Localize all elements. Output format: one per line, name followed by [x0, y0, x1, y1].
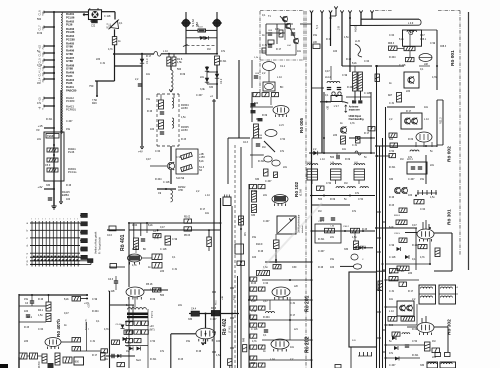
- svg-text:GY88: GY88: [66, 67, 73, 71]
- svg-text:22n: 22n: [330, 236, 335, 239]
- svg-text:BC: BC: [280, 86, 284, 89]
- svg-text:V3: V3: [36, 128, 40, 132]
- svg-text:HC50: HC50: [181, 106, 188, 110]
- svg-text:C 99: C 99: [342, 74, 348, 77]
- svg-text:10n: 10n: [146, 73, 151, 76]
- svg-text:R 46: R 46: [389, 196, 395, 199]
- svg-text:L1.5: L1.5: [279, 124, 284, 127]
- svg-text:PCL86: PCL86: [66, 30, 75, 34]
- svg-text:R 09: R 09: [412, 328, 418, 331]
- svg-text:8,2k: 8,2k: [64, 298, 69, 301]
- svg-text:0,47: 0,47: [263, 300, 268, 303]
- svg-text:4,7k: 4,7k: [432, 76, 437, 79]
- svg-text:Rö 301: Rö 301: [447, 209, 453, 225]
- svg-text:1M: 1M: [207, 48, 210, 51]
- svg-text:330: 330: [420, 364, 425, 367]
- svg-text:C 52: C 52: [326, 182, 332, 185]
- svg-text:+4V: +4V: [37, 185, 42, 189]
- svg-text:S1.3: S1.3: [234, 295, 236, 300]
- svg-text:10n: 10n: [290, 346, 295, 349]
- svg-text:C 31: C 31: [90, 340, 96, 343]
- svg-text:PCC88: PCC88: [66, 37, 75, 41]
- svg-text:PCC1s: PCC1s: [68, 170, 77, 174]
- svg-text:8,2k: 8,2k: [199, 160, 204, 163]
- svg-text:R 09: R 09: [150, 298, 156, 301]
- svg-text:Rö 102: Rö 102: [294, 181, 299, 197]
- svg-text:PCF801: PCF801: [66, 108, 76, 112]
- svg-text:71C: 71C: [43, 26, 45, 30]
- svg-text:1M: 1M: [318, 210, 321, 213]
- svg-text:C 99: C 99: [251, 310, 257, 313]
- svg-text:560: 560: [389, 138, 394, 141]
- svg-text:GY86: GY86: [66, 59, 73, 63]
- svg-text:R 23: R 23: [362, 228, 368, 231]
- svg-text:22n: 22n: [283, 166, 288, 169]
- svg-text:C 64: C 64: [364, 60, 370, 63]
- svg-text:330: 330: [344, 248, 349, 251]
- svg-text:R 204: R 204: [155, 178, 162, 181]
- svg-text:R 46: R 46: [147, 110, 153, 113]
- svg-text:C 52: C 52: [37, 64, 43, 67]
- svg-text:C309: C309: [399, 271, 405, 273]
- svg-text:100: 100: [150, 128, 155, 131]
- svg-text:330: 330: [389, 178, 394, 181]
- svg-text:C2.2: C2.2: [220, 78, 223, 84]
- svg-text:C 99: C 99: [176, 156, 182, 159]
- svg-text:R5.2: R5.2: [127, 346, 132, 348]
- svg-text:81C: 81C: [43, 11, 45, 15]
- svg-text:C 64: C 64: [420, 208, 426, 211]
- svg-text:C 31: C 31: [262, 44, 268, 47]
- svg-text:C 118: C 118: [389, 256, 396, 259]
- svg-text:C4.3: C4.3: [108, 278, 114, 281]
- svg-text:(7 W): (7 W): [228, 326, 232, 333]
- svg-text:R 23: R 23: [389, 204, 395, 207]
- svg-text:C 207: C 207: [210, 318, 217, 321]
- svg-text:PL86: PL86: [66, 81, 73, 85]
- svg-text:61C: 61C: [43, 52, 45, 56]
- svg-text:1M: 1M: [400, 158, 403, 161]
- svg-text:R11.3: R11.3: [440, 117, 443, 124]
- svg-text:C 52: C 52: [389, 150, 395, 153]
- svg-text:L 14: L 14: [270, 358, 275, 361]
- svg-text:41C: 41C: [43, 72, 45, 76]
- svg-text:Rö 202: Rö 202: [305, 336, 311, 353]
- svg-text:R 17: R 17: [406, 110, 412, 113]
- svg-text:+2B: +2B: [328, 105, 330, 110]
- svg-text:750: 750: [89, 84, 94, 88]
- svg-text:Rö 401: Rö 401: [120, 234, 126, 251]
- svg-text:Rö 001: Rö 001: [450, 50, 456, 66]
- svg-text:J.B: J.B: [337, 26, 341, 30]
- svg-text:C 31: C 31: [352, 144, 358, 147]
- svg-text:C 52: C 52: [412, 340, 418, 343]
- svg-text:10n: 10n: [424, 106, 429, 109]
- svg-text:8,2k: 8,2k: [399, 38, 404, 41]
- svg-text:C 207: C 207: [408, 178, 415, 181]
- svg-text:L 0.9: L 0.9: [408, 22, 414, 25]
- svg-text:R 46: R 46: [38, 298, 44, 301]
- svg-text:C30: C30: [292, 266, 297, 269]
- svg-text:1,5n: 1,5n: [430, 196, 435, 199]
- svg-text:R 46: R 46: [66, 184, 72, 187]
- svg-text:C08.3: C08.3: [440, 46, 447, 48]
- svg-text:C 64: C 64: [263, 282, 269, 285]
- svg-text:Rö9: Rö9: [92, 102, 97, 105]
- svg-text:100: 100: [333, 50, 338, 53]
- svg-text:C 99: C 99: [430, 42, 436, 45]
- svg-text:330: 330: [209, 86, 214, 89]
- svg-text:Rö7: Rö7: [388, 95, 393, 97]
- svg-text:Flachbandltg.: Flachbandltg.: [349, 118, 365, 121]
- svg-text:C 64: C 64: [389, 34, 395, 37]
- svg-text:1M: 1M: [432, 340, 435, 343]
- svg-text:C 207: C 207: [318, 250, 325, 253]
- svg-text:L15.1: L15.1: [407, 159, 413, 161]
- svg-text:R 09: R 09: [330, 198, 336, 201]
- svg-text:R 09: R 09: [345, 158, 351, 161]
- svg-text:22n: 22n: [263, 194, 268, 197]
- svg-text:C2.3: C2.3: [243, 142, 249, 144]
- svg-text:5,3: 5,3: [315, 25, 319, 29]
- svg-text:R5.18: R5.18: [146, 283, 153, 286]
- svg-text:560: 560: [318, 198, 323, 201]
- svg-text:100: 100: [66, 198, 71, 201]
- svg-text:R 17: R 17: [276, 48, 282, 51]
- svg-text:R48: R48: [244, 337, 246, 342]
- svg-text:C1.7: C1.7: [39, 25, 42, 31]
- svg-text:220: 220: [408, 272, 413, 275]
- svg-text:L 14: L 14: [205, 194, 210, 197]
- svg-text:1,5n: 1,5n: [216, 354, 221, 357]
- svg-text:560: 560: [37, 18, 42, 21]
- svg-text:R 09: R 09: [180, 73, 186, 76]
- svg-text:C 118: C 118: [160, 248, 167, 251]
- svg-text:L 14: L 14: [320, 158, 325, 161]
- svg-text:4,7k: 4,7k: [420, 256, 425, 259]
- svg-text:22n: 22n: [37, 138, 42, 141]
- svg-text:R 23: R 23: [178, 358, 184, 361]
- svg-text:R 311: R 311: [150, 358, 157, 361]
- svg-text:C 207: C 207: [263, 220, 270, 223]
- svg-text:C4.4: C4.4: [191, 308, 197, 311]
- svg-text:C 207: C 207: [389, 364, 396, 367]
- svg-text:+U2: +U2: [39, 44, 42, 49]
- svg-text:L 14: L 14: [150, 288, 155, 291]
- svg-text:R06.3: R06.3: [388, 43, 395, 45]
- svg-text:4,7k: 4,7k: [350, 122, 355, 125]
- svg-text:8,2k: 8,2k: [251, 300, 256, 303]
- svg-text:WK: WK: [244, 232, 247, 236]
- svg-text:L14.2: L14.2: [325, 77, 331, 79]
- svg-text:PL500: PL500: [39, 361, 41, 368]
- svg-text:TST S: TST S: [151, 311, 154, 318]
- svg-text:C 99: C 99: [92, 298, 98, 301]
- svg-text:100: 100: [408, 194, 413, 197]
- svg-text:L1.B: L1.B: [355, 41, 360, 43]
- svg-text:R 17: R 17: [290, 314, 296, 317]
- svg-text:22n: 22n: [200, 76, 205, 79]
- svg-text:8,2k: 8,2k: [148, 224, 153, 227]
- svg-text:PL84: PL84: [66, 74, 73, 78]
- svg-text:C 52: C 52: [358, 198, 364, 201]
- svg-text:22n: 22n: [432, 356, 437, 359]
- svg-text:R 23: R 23: [181, 138, 187, 141]
- svg-text:0,47: 0,47: [64, 312, 69, 315]
- svg-text:10n: 10n: [297, 50, 302, 53]
- svg-text:R 17: R 17: [408, 290, 414, 293]
- svg-text:Fl.-Tast.gelöscht: Fl.-Tast.gelöscht: [99, 237, 102, 254]
- svg-text:R5.02: R5.02: [184, 217, 191, 219]
- svg-text:anpassen: anpassen: [349, 109, 361, 112]
- svg-text:L 14: L 14: [389, 310, 394, 313]
- svg-text:4,7k: 4,7k: [132, 264, 137, 267]
- svg-text:220: 220: [406, 90, 411, 93]
- svg-text:GY86: GY86: [66, 45, 73, 49]
- svg-text:+4B: +4B: [222, 296, 224, 300]
- svg-text:220: 220: [160, 270, 165, 273]
- svg-text:22n: 22n: [430, 164, 435, 167]
- svg-text:C22: C22: [91, 26, 96, 28]
- svg-text:C 118: C 118: [399, 64, 406, 67]
- svg-text:R 311: R 311: [318, 238, 325, 241]
- svg-text:Netzgleichr.: Netzgleichr.: [85, 318, 88, 330]
- svg-text:C 64: C 64: [155, 150, 161, 153]
- svg-text:0,47: 0,47: [325, 70, 330, 73]
- svg-text:Rö 005: Rö 005: [299, 117, 304, 133]
- svg-text:R 17: R 17: [364, 132, 370, 135]
- svg-text:4,7k: 4,7k: [104, 328, 109, 331]
- svg-text:100: 100: [216, 340, 221, 343]
- svg-text:C 64: C 64: [38, 328, 44, 331]
- svg-text:C 31: C 31: [389, 290, 395, 293]
- svg-text:1M: 1M: [37, 82, 40, 85]
- svg-text:C1.4: C1.4: [39, 71, 42, 77]
- svg-text:C 31: C 31: [172, 268, 178, 271]
- svg-text:8,2k: 8,2k: [389, 226, 394, 229]
- svg-text:GY86: GY86: [66, 52, 73, 56]
- svg-text:C5.1: C5.1: [127, 343, 132, 345]
- svg-text:Si 0,8A: Si 0,8A: [192, 19, 195, 27]
- svg-text:(0,7W): (0,7W): [300, 189, 303, 196]
- svg-text:100: 100: [252, 256, 257, 259]
- svg-text:R 46: R 46: [326, 38, 332, 41]
- svg-text:C1.3: C1.3: [145, 58, 149, 64]
- svg-text:C 31: C 31: [290, 302, 296, 305]
- svg-text:C 118: C 118: [251, 328, 258, 331]
- svg-text:600: 600: [75, 361, 80, 364]
- svg-text:4,7k: 4,7k: [252, 340, 257, 343]
- svg-text:R 311: R 311: [220, 60, 227, 63]
- svg-text:C5.9: C5.9: [45, 164, 51, 167]
- svg-text:R4.1: R4.1: [38, 309, 44, 312]
- svg-text:220: 220: [96, 58, 101, 61]
- svg-text:L 14: L 14: [163, 50, 168, 53]
- svg-text:C 207: C 207: [196, 94, 203, 97]
- svg-text:TEMP: TEMP: [47, 134, 54, 138]
- svg-text:C2.7: C2.7: [153, 231, 159, 233]
- svg-text:560: 560: [330, 156, 335, 159]
- svg-text:R 46: R 46: [196, 350, 202, 353]
- svg-text:PCL86: PCL86: [66, 15, 75, 19]
- svg-text:R20.8: R20.8: [394, 215, 401, 217]
- svg-text:C 118: C 118: [163, 181, 170, 184]
- svg-text:R 204: R 204: [263, 316, 270, 319]
- svg-text:R 311: R 311: [258, 160, 265, 163]
- svg-text:UHF: UHF: [178, 189, 184, 192]
- svg-text:C20.5: C20.5: [394, 233, 401, 235]
- svg-text:C 52: C 52: [150, 340, 156, 343]
- svg-text:C1.1: C1.1: [280, 65, 286, 68]
- svg-text:C30.2: C30.2: [343, 226, 350, 228]
- svg-text:Netz: Netz: [136, 359, 142, 362]
- svg-text:0,47: 0,47: [146, 158, 151, 161]
- svg-text:Rö 407b: Rö 407b: [56, 319, 61, 337]
- svg-text:10n: 10n: [205, 212, 210, 215]
- svg-text:R 09: R 09: [37, 32, 43, 35]
- svg-text:BC: BC: [143, 249, 147, 251]
- svg-text:8,2k: 8,2k: [352, 62, 357, 65]
- svg-text:C 207: C 207: [66, 120, 73, 123]
- svg-text:R30.5: R30.5: [360, 246, 367, 248]
- svg-text:R10.9: R10.9: [256, 243, 263, 246]
- svg-text:3,3k: 3,3k: [200, 88, 205, 91]
- svg-text:+4V: +4V: [138, 150, 143, 154]
- svg-text:330: 330: [188, 318, 193, 321]
- svg-text:S10 S9: S10 S9: [176, 177, 185, 180]
- svg-text:+15V: +15V: [199, 156, 205, 159]
- svg-text:1M: 1M: [126, 350, 129, 353]
- svg-text:1,5n: 1,5n: [181, 116, 186, 119]
- svg-text:C5.13: C5.13: [116, 324, 123, 326]
- svg-text:PABC80: PABC80: [66, 88, 77, 92]
- svg-text:1,5k: 1,5k: [177, 61, 182, 64]
- svg-text:A(W): A(W): [354, 26, 358, 32]
- svg-text:0,47: 0,47: [412, 224, 417, 227]
- svg-text:100: 100: [330, 266, 335, 269]
- svg-text:+15: +15: [39, 97, 42, 102]
- svg-text:220: 220: [333, 134, 338, 137]
- svg-text:R 311: R 311: [251, 190, 258, 193]
- svg-text:51C: 51C: [43, 59, 45, 63]
- svg-text:L 14: L 14: [424, 118, 429, 121]
- svg-text:R 23: R 23: [251, 282, 257, 285]
- svg-text:22n: 22n: [178, 304, 183, 307]
- svg-text:Rö 201: Rö 201: [305, 295, 311, 312]
- svg-text:R1.9: R1.9: [106, 23, 109, 29]
- svg-text:10n: 10n: [389, 298, 394, 301]
- svg-text:560: 560: [160, 294, 165, 297]
- svg-text:330: 330: [46, 184, 51, 187]
- svg-text:C 99: C 99: [172, 238, 178, 241]
- svg-text:C 118: C 118: [364, 92, 371, 95]
- svg-text:R 17: R 17: [146, 55, 152, 58]
- svg-text:R 204: R 204: [90, 20, 97, 23]
- svg-text:C1.5: C1.5: [39, 58, 42, 64]
- svg-text:0,47: 0,47: [160, 226, 165, 229]
- svg-text:R 46: R 46: [318, 266, 324, 269]
- svg-text:1,5n: 1,5n: [352, 236, 357, 239]
- svg-text:R 23: R 23: [346, 58, 352, 61]
- svg-text:C 207: C 207: [265, 180, 272, 183]
- svg-text:C 52: C 52: [280, 138, 286, 141]
- svg-text:C 52: C 52: [199, 36, 205, 39]
- svg-text:4,7k: 4,7k: [275, 28, 280, 31]
- svg-text:2U: 2U: [43, 46, 45, 49]
- svg-text:220: 220: [24, 340, 29, 343]
- svg-text:C 31: C 31: [389, 102, 395, 105]
- svg-text:220: 220: [251, 362, 256, 365]
- svg-text:R 204: R 204: [347, 86, 354, 89]
- svg-text:o o: o o: [352, 339, 356, 342]
- svg-text:C5.2: C5.2: [250, 313, 252, 318]
- svg-text:560: 560: [389, 324, 394, 327]
- svg-text:R 17: R 17: [92, 354, 98, 357]
- svg-text:R 204: R 204: [92, 310, 99, 313]
- svg-text:PCF80: PCF80: [66, 99, 75, 103]
- svg-text:L 9.7: L 9.7: [334, 106, 340, 108]
- svg-text:Rö 002: Rö 002: [447, 146, 453, 162]
- svg-text:C30.1: C30.1: [318, 221, 325, 223]
- svg-text:(MT): (MT): [150, 328, 155, 331]
- svg-text:R 17: R 17: [200, 208, 206, 211]
- svg-text:C 31: C 31: [100, 62, 106, 65]
- svg-text:1,5n: 1,5n: [38, 314, 43, 317]
- svg-text:R 09: R 09: [262, 114, 268, 117]
- svg-text:R 204: R 204: [132, 248, 139, 251]
- svg-text:R 09: R 09: [408, 138, 414, 141]
- svg-text:C 99: C 99: [389, 244, 395, 247]
- svg-text:100: 100: [24, 310, 29, 313]
- svg-text:+2,5: +2,5: [89, 303, 91, 308]
- svg-text:R 311: R 311: [389, 166, 396, 169]
- svg-text:PL36: PL36: [66, 23, 73, 27]
- svg-text:R 311: R 311: [46, 118, 53, 121]
- svg-text:R 46: R 46: [258, 250, 264, 253]
- svg-text:0,47: 0,47: [420, 34, 425, 37]
- svg-text:C 64: C 64: [132, 224, 138, 227]
- svg-text:HC50: HC50: [181, 128, 188, 132]
- svg-text:330: 330: [251, 214, 256, 217]
- svg-text:Vertikal u.Horiz.geteilt: Vertikal u.Horiz.geteilt: [95, 231, 98, 254]
- svg-text:C1.8: C1.8: [39, 10, 42, 16]
- svg-text:PL36: PL36: [68, 150, 75, 154]
- svg-text:EM84: EM84: [62, 193, 69, 197]
- svg-text:R 204: R 204: [389, 56, 396, 59]
- svg-text:10n: 10n: [342, 148, 347, 151]
- svg-text:R 23: R 23: [24, 326, 30, 329]
- svg-text:C 118: C 118: [104, 15, 111, 18]
- svg-text:R5.1: R5.1: [216, 300, 218, 305]
- svg-text:1M: 1M: [344, 182, 347, 185]
- svg-text:4,7k: 4,7k: [108, 48, 113, 51]
- svg-text:R1.8: R1.8: [198, 27, 203, 29]
- svg-text:0,5M: 0,5M: [110, 23, 112, 28]
- svg-text:R 311: R 311: [412, 354, 419, 357]
- svg-text:330: 330: [255, 178, 260, 181]
- svg-text:C4.6: C4.6: [107, 235, 113, 237]
- svg-text:L 14: L 14: [277, 76, 282, 79]
- svg-text:1,5n: 1,5n: [344, 36, 349, 39]
- svg-text:R5.03: R5.03: [184, 235, 191, 237]
- svg-text:1M: 1M: [262, 146, 265, 149]
- svg-text:560: 560: [177, 68, 182, 71]
